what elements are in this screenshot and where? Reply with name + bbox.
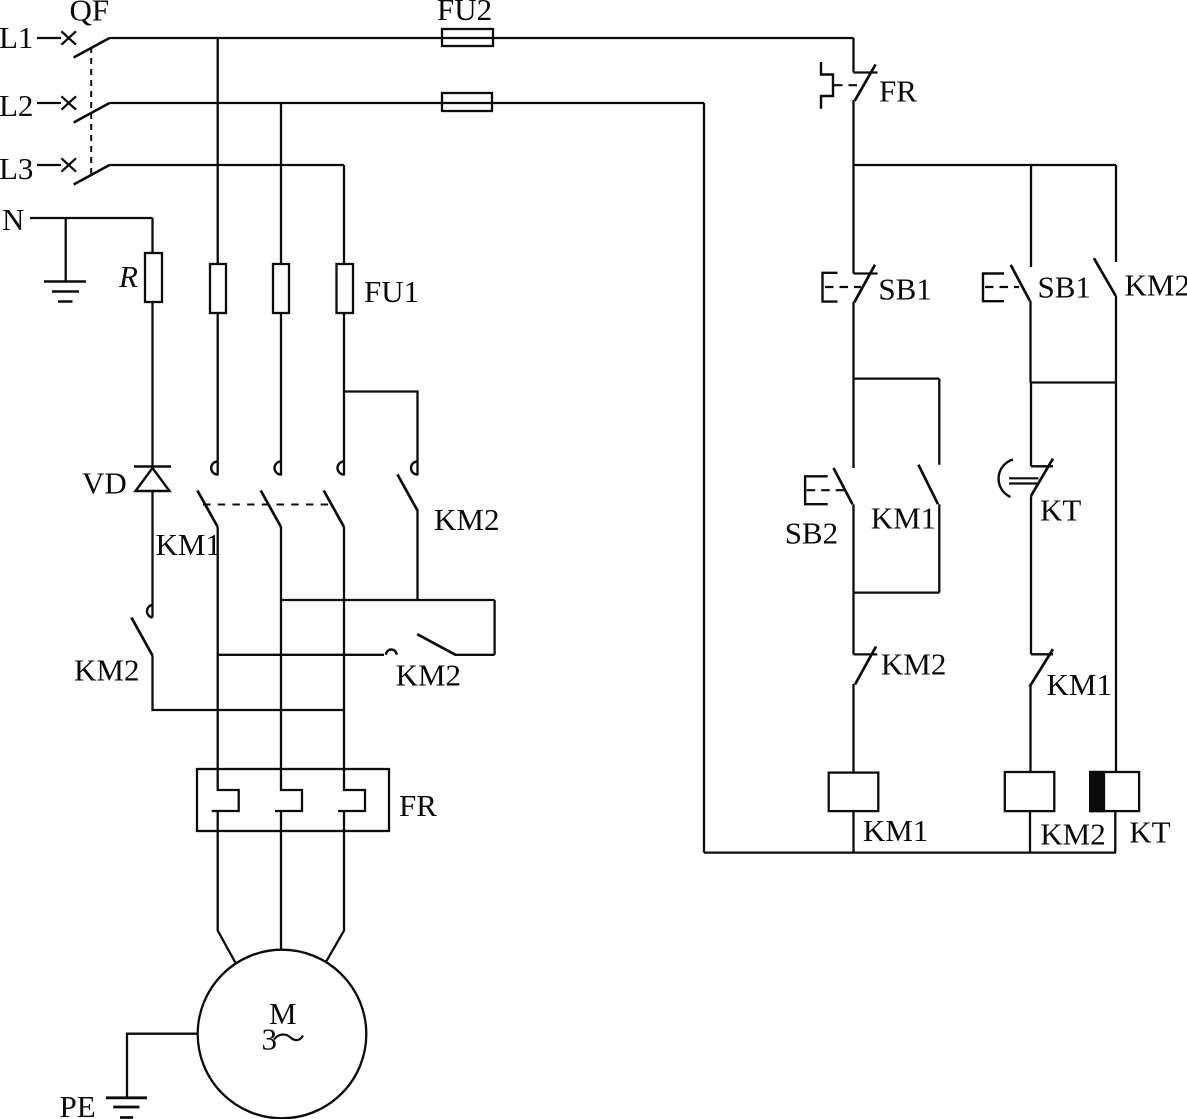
wire L1 drop to FU1-1 <box>217 38 219 264</box>
wire horizontal to KM2 lower contact <box>218 654 384 656</box>
button SB1 start actuator <box>983 274 1004 302</box>
button SB1 start blade <box>1011 265 1030 301</box>
svg-text:KT: KT <box>1129 815 1170 850</box>
svg-text:KM2: KM2 <box>434 502 499 537</box>
contactor KM1 pole 2 blade <box>261 491 281 528</box>
contactor KM2 left contact blade <box>131 618 152 656</box>
contact KM1 aux lower wire <box>938 504 940 592</box>
contact KM2 interlock stub <box>854 653 878 655</box>
breaker QF pole 2 blade <box>74 103 110 123</box>
wire KT coil feed <box>1115 383 1117 773</box>
contact KM1 interlock stub <box>1031 653 1053 655</box>
wire KM1 pole 1 down <box>217 527 219 769</box>
wire L2 control feed <box>703 103 705 853</box>
wire SB1 start lower <box>1029 301 1031 383</box>
button SB1 start dashed link <box>985 286 1019 288</box>
wire SB2 lower <box>852 504 854 592</box>
motor M circle <box>198 950 367 1119</box>
svg-text:KM1: KM1 <box>863 813 928 848</box>
wire FU1-1 to KM1 pole 1 <box>217 313 219 476</box>
button SB2 start dashed link <box>807 489 847 491</box>
svg-text:KM1: KM1 <box>1047 667 1112 702</box>
motor tilde <box>274 1035 303 1041</box>
wire junction horizontal <box>1031 381 1117 383</box>
svg-text:N: N <box>2 202 24 237</box>
wire SB1 start upper <box>1030 165 1032 267</box>
wire KM2 top contact down <box>416 512 418 601</box>
fuse FU1 pole 1 <box>210 264 226 313</box>
wire KM2 seal upper <box>1115 165 1117 262</box>
button SB1 stop dashed link <box>825 286 861 288</box>
svg-text:SB1: SB1 <box>1038 269 1091 304</box>
resistor R <box>145 253 162 302</box>
fuse FU1 pole 2 <box>273 264 289 313</box>
contactor KM1 pole 3 blade <box>324 491 344 528</box>
fuse FU2 pole 1 <box>442 29 493 46</box>
wire FR to motor lead 2 <box>280 811 282 950</box>
wire FR contact down <box>852 100 854 274</box>
svg-text:SB2: SB2 <box>785 516 838 551</box>
wire L2 drop to FU1-2 <box>280 103 282 264</box>
breaker QF pole 2 cross <box>61 96 76 109</box>
breaker QF linkage dashed <box>90 47 92 176</box>
button SB1 stop blade <box>854 265 875 303</box>
svg-text:FU2: FU2 <box>437 0 492 27</box>
svg-text:KM1: KM1 <box>871 501 936 536</box>
contact KM1 aux blade <box>918 465 938 505</box>
svg-text:FR: FR <box>399 788 437 823</box>
svg-text:FU1: FU1 <box>364 274 419 309</box>
wire L3 drop to FU1-3 <box>343 165 345 264</box>
svg-text:L1: L1 <box>0 20 33 55</box>
relay FR trip actuator dashed link <box>834 84 863 86</box>
contactor KM2 left contact terminal <box>147 605 153 618</box>
button SB1 stop actuator <box>823 273 838 302</box>
breaker QF pole 3 blade <box>74 165 110 185</box>
wire L2 lead <box>37 102 61 104</box>
button SB1 stop contact stub <box>854 272 878 274</box>
wire SB1 down <box>852 302 854 379</box>
wire KM1 pole 3 down <box>343 527 345 769</box>
contact KM2 seal blade <box>1094 258 1116 295</box>
wire VD to KM2 left contact <box>151 491 153 618</box>
wire branch to KM2 top contact <box>344 392 418 476</box>
svg-text:KM2: KM2 <box>881 647 946 682</box>
wire L1 bus <box>110 37 854 39</box>
breaker QF pole 1 blade <box>74 38 110 58</box>
svg-text:PE: PE <box>60 1089 96 1119</box>
contactor KM2 top contact blade <box>397 474 418 511</box>
ground under N <box>44 282 86 302</box>
wire parallel branch bottom <box>854 591 940 593</box>
wire N <box>30 217 153 219</box>
contact KT delay blade <box>1031 459 1053 497</box>
wire to KM2 interlock <box>852 593 854 655</box>
wire KM2 seal lower <box>1115 296 1117 383</box>
contactor KM2 lower contact blade <box>417 634 455 655</box>
contactor KM1 pole 1 blade <box>197 491 217 528</box>
svg-text:KM2: KM2 <box>74 653 139 688</box>
wire FR to motor lead 1 <box>218 811 236 963</box>
svg-text:KT: KT <box>1040 493 1081 528</box>
fuse FU2 pole 2 <box>442 93 492 111</box>
coil KT black segment <box>1090 772 1104 811</box>
contactor KM2 lower contact terminal <box>386 650 397 655</box>
coil KT <box>1090 772 1139 811</box>
relay FR heater 3 <box>338 769 365 811</box>
fuse FU1 pole 3 <box>337 264 354 313</box>
wire SB2 upper <box>852 379 854 468</box>
wire control bottom rail <box>704 851 1116 853</box>
button SB2 start blade <box>834 468 853 504</box>
wire coil KM1 to bottom rail <box>852 811 854 853</box>
wire FU1-3 down <box>343 313 345 476</box>
contact KM1 aux upper wire <box>938 379 940 465</box>
wire L1 corner down to FR contact <box>852 38 854 73</box>
wire L3 lead <box>37 164 61 166</box>
breaker QF pole 3 cross <box>61 158 76 171</box>
relay FR trip contact blade <box>855 64 876 100</box>
svg-text:KM1: KM1 <box>156 527 221 562</box>
wire coil KM2 to bottom rail <box>1029 811 1031 853</box>
ground PE symbol <box>106 1098 147 1118</box>
wire control top rail <box>854 164 1117 166</box>
wire parallel branch top <box>854 377 940 379</box>
contact KT delay stub <box>1031 465 1053 467</box>
svg-text:KM2: KM2 <box>396 657 461 692</box>
wire R to VD <box>151 302 153 466</box>
contactor KM1 pole 2 terminal <box>275 462 282 475</box>
wire L1 lead <box>37 37 61 39</box>
wire N to R <box>151 218 153 253</box>
svg-text:SB1: SB1 <box>878 272 931 307</box>
wire junction to KT contact <box>1030 383 1032 467</box>
breaker QF pole 1 cross <box>61 31 76 44</box>
wire bridge horizontal upper <box>281 599 495 601</box>
wire KM1 pole 2 down <box>280 527 282 769</box>
coil KM2 <box>1005 772 1055 811</box>
wire KM2 interlock to coil KM1 <box>852 684 854 773</box>
svg-text:FR: FR <box>879 73 917 108</box>
wire L3 bus <box>110 164 345 166</box>
relay FR trip contact stub <box>854 71 878 73</box>
contactor KM2 top contact terminal <box>411 462 417 475</box>
svg-text:KM2: KM2 <box>1040 816 1105 851</box>
svg-text:VD: VD <box>82 466 127 501</box>
svg-text:KM2: KM2 <box>1125 268 1187 303</box>
relay FR heater 2 <box>275 769 302 811</box>
relay FR trip actuator <box>821 62 833 109</box>
relay FR heater box <box>197 769 389 831</box>
wire FU1-2 to KM1 pole 2 <box>280 313 282 476</box>
wire coil KT to bottom rail <box>1114 811 1116 853</box>
svg-text:QF: QF <box>70 0 110 28</box>
wire KM2 left down and across <box>153 656 345 711</box>
contact KT delay double link <box>1009 478 1039 483</box>
contactor KM1 pole 3 terminal <box>338 462 344 475</box>
wire KT contact to KM1 interlock <box>1030 496 1032 654</box>
wire motor to PE <box>127 1034 198 1098</box>
svg-text:R: R <box>118 259 138 294</box>
contactor KM1 linkage dashed <box>203 504 332 506</box>
wire earth drop <box>65 218 67 281</box>
wire FR to motor lead 3 <box>326 811 344 961</box>
wire L2 bus <box>110 102 705 104</box>
contact KT delay arc <box>999 460 1013 498</box>
contactor KM1 pole 1 terminal <box>211 462 217 475</box>
wire KM2 lower contact right <box>455 654 495 656</box>
coil KM1 <box>829 773 879 812</box>
svg-text:L2: L2 <box>0 88 33 123</box>
svg-text:L3: L3 <box>0 151 33 186</box>
contact KM1 interlock blade <box>1030 649 1053 687</box>
relay FR heater 1 <box>212 769 239 811</box>
wire bridge right vertical <box>493 600 495 655</box>
button SB2 start actuator <box>805 476 828 504</box>
wire KM1 interlock to coil KM2 <box>1029 686 1031 772</box>
diode VD <box>134 467 171 492</box>
contact KM2 interlock blade <box>855 647 876 685</box>
